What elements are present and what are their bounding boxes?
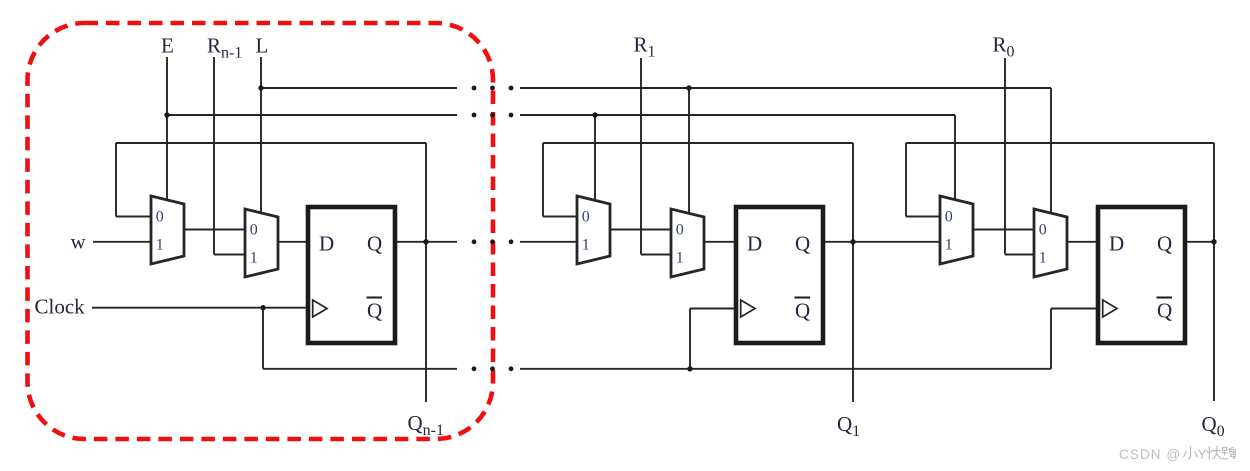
svg-text:CSDN @: CSDN @	[1119, 447, 1181, 462]
svg-text:w: w	[71, 230, 87, 254]
svg-text:L: L	[256, 34, 269, 58]
svg-text:Y: Y	[1198, 447, 1207, 462]
svg-text:E: E	[161, 34, 174, 58]
svg-text:Clock: Clock	[35, 295, 86, 319]
